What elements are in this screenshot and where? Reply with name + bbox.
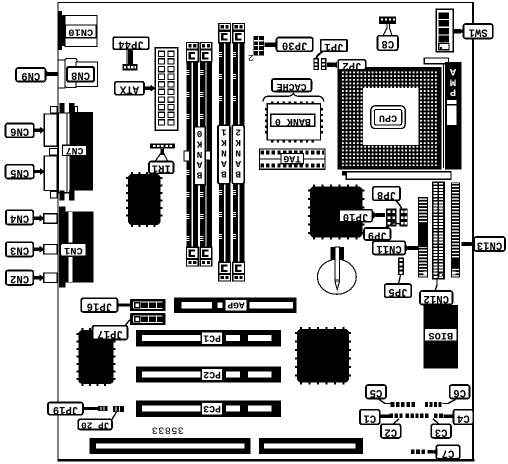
DIMM socket BANK0 rail right xyxy=(200,49,212,259)
wire C2 tail xyxy=(393,419,399,425)
wire C5 tail xyxy=(378,399,391,404)
svg-text:BIOS: BIOS xyxy=(428,329,453,341)
battery BT1 xyxy=(318,259,357,294)
capacitor strip C5 xyxy=(391,402,395,407)
svg-text:35833: 35833 xyxy=(151,424,184,435)
svg-text:N: N xyxy=(221,147,227,158)
svg-text:CN12: CN12 xyxy=(424,292,449,304)
svg-text:B: B xyxy=(235,169,241,180)
jumper JP1/JP2 block xyxy=(313,58,319,70)
svg-text:A: A xyxy=(449,65,456,77)
header JP17 xyxy=(130,313,166,325)
svg-text:PC2: PC2 xyxy=(203,369,221,380)
label CACHE xyxy=(272,79,312,91)
svg-text:JP2: JP2 xyxy=(342,59,361,71)
slot ISA1 xyxy=(90,438,251,454)
wire JP10 arrow xyxy=(373,212,379,219)
label CN2 xyxy=(6,271,33,285)
notch between CN6 CN5 xyxy=(50,149,58,156)
label JP16 xyxy=(81,298,117,312)
capacitor strip C6 xyxy=(425,402,428,407)
label CN5 xyxy=(6,165,34,179)
label CPU xyxy=(371,106,405,129)
svg-text:B: B xyxy=(196,170,202,181)
svg-text:C2: C2 xyxy=(384,425,397,437)
svg-text:JP1: JP1 xyxy=(324,40,343,52)
DIMM socket BANK1 rail xyxy=(219,30,231,274)
board bottom edge thick xyxy=(58,459,475,462)
connector AMP slot1 xyxy=(445,62,462,170)
label BANK 0 sram xyxy=(271,114,315,126)
wire IR1 tail xyxy=(155,149,161,162)
wire ATX arrow xyxy=(144,87,151,90)
label CN1 xyxy=(60,243,86,256)
svg-text:SW1: SW1 xyxy=(469,26,488,38)
svg-text:CN3: CN3 xyxy=(10,244,29,256)
connector CN4 port xyxy=(44,214,57,224)
label JP10 xyxy=(339,210,372,222)
chip U8 regulator xyxy=(128,174,161,225)
svg-text:JP8: JP8 xyxy=(377,188,396,200)
label BIOS xyxy=(424,329,457,342)
label C7 xyxy=(436,445,459,459)
label C8 xyxy=(378,36,398,51)
svg-text:C1: C1 xyxy=(363,411,376,423)
svg-text:N: N xyxy=(235,147,241,158)
brace cache xyxy=(263,93,324,101)
svg-text:C3: C3 xyxy=(435,425,448,437)
wire JP9 tail xyxy=(385,223,399,229)
mounting tabs above CN7 xyxy=(51,107,58,114)
svg-text:CN10: CN10 xyxy=(68,26,93,38)
svg-text:CPU: CPU xyxy=(379,112,397,123)
capacitor strip C1 xyxy=(390,413,393,418)
label C4 xyxy=(454,410,474,425)
svg-text:JP16: JP16 xyxy=(87,299,112,311)
wire JP19 bar xyxy=(83,407,98,410)
label CN13 xyxy=(474,237,505,251)
jumper JP44 xyxy=(122,64,137,70)
BANK0 key notches xyxy=(184,151,190,161)
wire C7 arrow xyxy=(432,448,438,455)
label JP44 xyxy=(113,37,149,49)
connector CN5 port xyxy=(44,156,57,191)
label JP20 xyxy=(78,419,112,429)
jumper JP5 xyxy=(398,258,404,276)
svg-text:BANK 0: BANK 0 xyxy=(275,115,311,126)
wire CN4 arrow xyxy=(33,217,39,220)
wire CN5 arrow xyxy=(34,170,40,173)
slot PC3 xyxy=(136,401,281,417)
svg-text:K: K xyxy=(196,138,202,149)
slot ISA2 xyxy=(259,438,363,454)
svg-text:AGP: AGP xyxy=(227,300,245,311)
wire JP5 tail xyxy=(399,275,401,284)
chip audio U xyxy=(79,330,114,384)
label JP8 xyxy=(373,187,400,201)
svg-text:JP10: JP10 xyxy=(343,210,368,222)
label BANK 1 xyxy=(218,125,230,184)
capacitor strip C7 xyxy=(411,449,415,454)
header CN11 strip xyxy=(418,197,428,278)
svg-text:JP17: JP17 xyxy=(97,327,122,339)
switch SW1 xyxy=(436,9,453,51)
label CN4 xyxy=(6,210,33,224)
wire CN9 arrow xyxy=(45,70,52,78)
svg-text:CN7: CN7 xyxy=(66,145,84,156)
svg-text:CN2: CN2 xyxy=(10,272,29,284)
svg-text:CN9: CN9 xyxy=(21,69,40,81)
label ATX xyxy=(115,82,144,95)
wire JP17 tail xyxy=(125,320,130,326)
chip SRAM BANK0 xyxy=(267,104,320,140)
svg-text:A: A xyxy=(235,158,241,169)
wire JP44 tail xyxy=(128,49,133,64)
wire JP30 bar xyxy=(272,40,278,49)
wire SW1 arrow xyxy=(459,28,465,35)
CPU socket lever bottom xyxy=(342,171,346,175)
svg-text:JP19: JP19 xyxy=(53,403,78,415)
label C5 xyxy=(366,385,386,399)
svg-text:JP44: JP44 xyxy=(118,38,144,50)
header IR1 xyxy=(150,144,175,149)
label C2 xyxy=(381,424,401,438)
svg-text:CN6: CN6 xyxy=(10,125,29,137)
svg-text:JP30: JP30 xyxy=(282,39,307,51)
connector CN6 port xyxy=(44,114,57,146)
svg-text:K: K xyxy=(221,137,227,148)
wire C4 arrow xyxy=(444,415,454,418)
slot PC1 xyxy=(136,330,281,346)
chip TAG sram xyxy=(260,149,326,169)
wire JP16 bar xyxy=(118,303,131,306)
label IR1 xyxy=(149,162,174,174)
svg-text:JP 20: JP 20 xyxy=(81,419,110,430)
connector CN7 body xyxy=(58,113,70,193)
label CN6 xyxy=(6,124,34,138)
capacitor strip C4side xyxy=(434,413,438,418)
svg-text:A: A xyxy=(196,159,202,170)
svg-text:CACHE: CACHE xyxy=(277,80,307,91)
CPU socket xyxy=(338,67,442,170)
wire JP20 tail xyxy=(112,412,117,420)
label CN3 xyxy=(6,242,33,256)
chip south bridge xyxy=(297,329,349,383)
svg-text:CN4: CN4 xyxy=(9,212,29,224)
wire JP1 tail xyxy=(316,51,322,58)
label CN7 xyxy=(63,145,87,155)
capacitor strip mid xyxy=(406,413,409,418)
connector CN1 block xyxy=(59,211,93,282)
svg-text:CN5: CN5 xyxy=(10,166,29,178)
svg-text:N: N xyxy=(196,149,202,160)
svg-text:C4: C4 xyxy=(456,411,469,423)
svg-text:A: A xyxy=(221,158,227,169)
label JP30 xyxy=(277,38,313,52)
label CN9 xyxy=(16,68,46,82)
label BANK 2 xyxy=(232,125,244,184)
jumper JP8/JP10 group2 xyxy=(399,209,407,227)
svg-text:2: 2 xyxy=(235,126,241,137)
wire CN11 arrow xyxy=(404,244,410,252)
label JP5 xyxy=(385,284,412,297)
label JP17 xyxy=(93,326,128,340)
header fan 2x4 xyxy=(253,36,263,56)
wire CN12 tail xyxy=(435,279,437,291)
DIMM socket BANK2 rail xyxy=(233,30,245,274)
slot PC2 xyxy=(136,366,281,382)
label TAG xyxy=(281,154,304,164)
svg-text:IR1: IR1 xyxy=(152,162,171,174)
label BANK 0 xyxy=(194,127,205,185)
connector ATX power xyxy=(155,48,178,131)
wire C8 tail xyxy=(383,24,387,36)
svg-text:2: 2 xyxy=(248,52,254,63)
svg-text:B: B xyxy=(221,169,227,180)
jumper JP19 b xyxy=(113,406,124,412)
wire JP2 bar xyxy=(332,62,337,69)
connector CN2 port xyxy=(44,273,57,283)
chip BIOS xyxy=(424,305,459,369)
wire CN3 arrow xyxy=(33,248,39,251)
label C6 xyxy=(450,385,470,399)
wire CN13 arrow xyxy=(470,240,476,248)
svg-text:CN8: CN8 xyxy=(71,68,90,80)
CPU socket lever top xyxy=(424,58,448,64)
svg-text:C5: C5 xyxy=(370,386,383,398)
svg-text:ATX: ATX xyxy=(119,83,139,95)
svg-text:0: 0 xyxy=(196,128,202,139)
header CN12 strip xyxy=(433,182,444,278)
DIMM socket BANK0 rail left xyxy=(187,49,199,259)
wire C1 arrow xyxy=(380,415,390,418)
wire JP8 tail xyxy=(396,200,402,208)
svg-text:CN13: CN13 xyxy=(477,238,502,250)
svg-text:C7: C7 xyxy=(442,446,455,458)
chip north bridge xyxy=(310,187,363,238)
label JP9 xyxy=(364,228,391,240)
slot AGP xyxy=(174,298,297,314)
svg-text:C6: C6 xyxy=(453,386,466,398)
svg-text:JP9: JP9 xyxy=(368,228,387,240)
wire C3 tail xyxy=(433,419,439,425)
jumper JP19 a xyxy=(98,406,107,411)
svg-text:CN11: CN11 xyxy=(376,242,401,254)
board right edge thick xyxy=(472,2,474,461)
svg-text:TAG: TAG xyxy=(283,153,301,164)
svg-text:CN1: CN1 xyxy=(64,244,83,256)
svg-text:K: K xyxy=(235,137,241,148)
svg-text:JP5: JP5 xyxy=(388,285,407,297)
connector CN8 xyxy=(58,60,65,88)
label CN11 xyxy=(373,241,406,254)
svg-text:1: 1 xyxy=(221,126,227,137)
label C3 xyxy=(431,424,451,438)
svg-text:PC1: PC1 xyxy=(203,333,221,344)
connector CN3 port xyxy=(44,245,57,255)
jumper JP8/JP10 group1 xyxy=(386,209,396,227)
label JP1 xyxy=(321,40,347,52)
header CN13 strip xyxy=(451,182,460,277)
label JP19 xyxy=(48,403,83,415)
mounting tabs below CN5 xyxy=(51,192,58,199)
wire C6 tail xyxy=(442,399,457,404)
header JP16 xyxy=(130,299,166,311)
switch SW1 pin1 box xyxy=(439,44,449,50)
label JP2 xyxy=(338,60,366,70)
svg-text:PC3: PC3 xyxy=(203,403,221,414)
wire CN2 arrow xyxy=(33,276,39,279)
connector CN10 xyxy=(58,11,66,50)
label C1 xyxy=(360,410,380,425)
capacitor C8 part xyxy=(379,17,396,25)
wire CN6 arrow xyxy=(34,129,40,132)
label SW1 xyxy=(464,24,493,39)
label CN12 xyxy=(420,291,453,305)
svg-text:C8: C8 xyxy=(381,37,394,49)
